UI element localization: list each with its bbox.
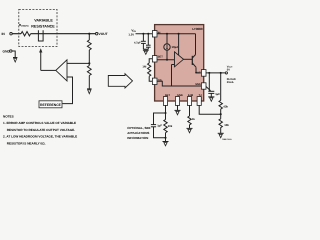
svg-text:OPTIONAL, SEE: OPTIONAL, SEE — [127, 126, 150, 130]
svg-text:1. ERROR AMP CONTROLS VALUE OF: 1. ERROR AMP CONTROLS VALUE OF VARIABLE — [3, 121, 76, 125]
svg-text:5V: 5V — [227, 68, 230, 71]
svg-text:GND: GND — [3, 50, 11, 54]
svg-text:GND: GND — [177, 94, 183, 97]
svg-text:SET: SET — [165, 94, 170, 97]
svg-text:ILIM: ILIM — [188, 94, 193, 97]
svg-text:10µA: 10µA — [172, 45, 179, 49]
svg-text:4.7µF: 4.7µF — [134, 41, 141, 44]
svg-text:VOUT: VOUT — [99, 32, 108, 36]
svg-text:SET: SET — [158, 55, 163, 58]
svg-text:1k: 1k — [192, 118, 195, 121]
svg-text:RESISTOR TO REGULATE OUTPUT VO: RESISTOR TO REGULATE OUTPUT VOLTAGE. — [7, 128, 75, 132]
svg-text:2. AT LOW HEADROOM VOLTAGE, TH: 2. AT LOW HEADROOM VOLTAGE, THE VARIABLE — [3, 135, 77, 139]
svg-text:20k: 20k — [168, 125, 173, 128]
svg-text:20mA: 20mA — [227, 81, 234, 84]
svg-text:1.2V: 1.2V — [128, 32, 134, 36]
svg-text:RESISTOR IS NEARLY 0Ω.: RESISTOR IS NEARLY 0Ω. — [7, 141, 46, 145]
svg-text:43k: 43k — [223, 104, 228, 108]
svg-text:RESISTANCE: RESISTANCE — [31, 24, 55, 28]
svg-text:VARIABLE: VARIABLE — [34, 18, 53, 22]
svg-text:3080 TA01: 3080 TA01 — [222, 138, 231, 141]
svg-text:1µF: 1µF — [157, 125, 162, 128]
svg-text:NOTES: NOTES — [3, 115, 14, 119]
svg-text:INFORMATION: INFORMATION — [127, 136, 148, 140]
svg-text:1µF: 1µF — [215, 93, 220, 96]
svg-text:REFERENCE: REFERENCE — [40, 103, 62, 107]
svg-text:1M: 1M — [142, 65, 147, 69]
svg-text:APPLICATIONS: APPLICATIONS — [127, 131, 149, 135]
svg-text:10k: 10k — [224, 123, 229, 127]
svg-text:LT3080: LT3080 — [192, 27, 202, 31]
